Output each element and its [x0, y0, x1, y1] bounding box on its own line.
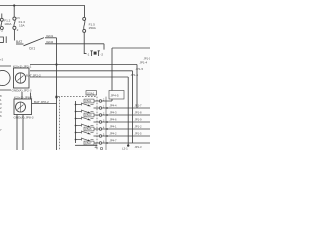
svg-text:Cn1: Cn1: [29, 47, 35, 51]
wire IGN1 terminal: [45, 37, 57, 39]
svg-text:GND(A) JP8-3: GND(A) JP8-3: [14, 116, 34, 120]
svg-text:JP1-7: JP1-7: [135, 103, 143, 107]
svg-text:250A: 250A: [89, 26, 97, 30]
svg-text:-2: -2: [100, 52, 103, 56]
fuse F1.5: [83, 17, 86, 51]
fuse F1.2 (left edge, partially cut): [0, 14, 3, 30]
node junction on JP2-1 line: [55, 63, 57, 65]
wire row y115: [94, 114, 151, 116]
svg-text:Q5A3: Q5A3: [85, 113, 92, 117]
wire IGN1 vertical drop: [56, 38, 58, 150]
wire row y108: [94, 107, 151, 109]
svg-text:K2(+2) JP8-1: K2(+2) JP8-1: [14, 95, 33, 99]
svg-text:JP4-2: JP4-2: [110, 131, 118, 135]
svg-text:JP4-6: JP4-6: [110, 117, 118, 121]
relay K2 outer (cut at edge): [0, 66, 11, 90]
relay K8 link: [22, 92, 31, 99]
sidebar vertical text: [0, 94, 2, 132]
wire bus drop to fuse F1.3: [13, 6, 15, 18]
transistor array Q1-Q6: [75, 99, 150, 149]
svg-text:JP1-5: JP1-5: [136, 67, 144, 71]
svg-text:JP4-3: JP4-3: [110, 110, 118, 114]
svg-text:BAT: BAT: [16, 40, 22, 44]
transistor Q6: [75, 138, 94, 142]
texts: [0, 17, 119, 120]
svg-text:JP1-4: JP1-4: [140, 61, 148, 65]
switch SW1 ignition blade: [16, 43, 24, 45]
diode module D1 -1 [s] -2: [84, 51, 86, 54]
svg-text:2: 2: [17, 28, 19, 32]
svg-text:Q5A1: Q5A1: [85, 99, 92, 103]
transistor Q3: [75, 117, 94, 121]
wire JP1 feed top right: [112, 47, 150, 49]
module bottom rail: [75, 144, 97, 146]
svg-text:IGN2: IGN2: [46, 40, 54, 44]
transistor Q2: [75, 110, 94, 114]
svg-text:BAT JP2-2: BAT JP2-2: [26, 73, 41, 77]
svg-text:BAT JP8-2: BAT JP8-2: [34, 100, 49, 104]
svg-text:JP4-1: JP4-1: [110, 124, 118, 128]
wire JP2-1 line: [30, 64, 137, 66]
svg-text:JP4-4: JP4-4: [110, 103, 118, 107]
svg-text:JP4-7: JP4-7: [110, 138, 118, 142]
wire top bus: [0, 6, 85, 18]
relay K2 inner box: [14, 68, 30, 88]
svg-text:-2: -2: [0, 29, 3, 33]
no-connect stub left edge: [0, 36, 6, 43]
driver box Q5A7: [84, 141, 94, 145]
svg-text:IGN1: IGN1: [46, 34, 54, 38]
driver box Q5A3: [84, 113, 94, 117]
wire BAT JP8-2: [32, 103, 57, 105]
wire row y143: [94, 142, 151, 144]
svg-text:Q5A7: Q5A7: [85, 141, 92, 145]
svg-text:JP1-5: JP1-5: [135, 131, 143, 135]
label L2 terminal: [127, 144, 129, 146]
wire IGN2 terminal run: [45, 43, 104, 45]
wire row y136: [94, 135, 151, 137]
svg-text:JP1-9: JP1-9: [135, 117, 143, 121]
svg-text:Q5A1: Q5A1: [87, 91, 95, 95]
label box Q5A: [86, 91, 97, 95]
wire JP2-2 line: [30, 70, 133, 72]
transistor Q4: [75, 124, 94, 128]
node module tap: [55, 96, 57, 98]
base feed bus: [75, 101, 77, 143]
svg-text:JP4-5: JP4-5: [111, 94, 119, 98]
svg-text:JP1-8: JP1-8: [135, 110, 143, 114]
wire JP2-3 line: [30, 76, 128, 78]
svg-text:+2: +2: [0, 58, 4, 62]
transistor Q1: [75, 103, 94, 107]
wire JP1-5 drop: [132, 71, 134, 143]
wire JP1-4 drop: [136, 65, 138, 109]
svg-text:JP1-3: JP1-3: [135, 145, 143, 149]
relay K8 box: [14, 99, 32, 115]
wire row y129: [94, 128, 151, 130]
wire row y101: [94, 100, 112, 102]
svg-text:JP1-2: JP1-2: [135, 124, 143, 128]
driver box Q5A5: [84, 127, 94, 131]
svg-text:100A: 100A: [4, 22, 12, 26]
ground tick below rail: [95, 144, 98, 148]
wire K8 ground drops: [17, 115, 23, 151]
wire row y122: [94, 121, 151, 123]
node bus junction: [13, 4, 15, 6]
svg-text:15A: 15A: [19, 24, 25, 28]
svg-text:JP1-6: JP1-6: [131, 73, 139, 77]
svg-text:K2(+2) JP2-1: K2(+2) JP2-1: [13, 65, 32, 69]
wire JP1-6 long drop: [127, 77, 129, 145]
svg-text:-1: -1: [87, 52, 90, 56]
module dashed border: [58, 97, 97, 150]
driver box Q5A1: [84, 99, 94, 103]
fuse F1.3: [13, 17, 16, 40]
JP4-5 box: [109, 91, 124, 100]
svg-text:GND(A) JP2-3: GND(A) JP2-3: [12, 89, 32, 93]
svg-text:L2-1: L2-1: [122, 147, 128, 151]
connector body line: [105, 97, 107, 150]
svg-text:Q5A5: Q5A5: [85, 127, 92, 131]
transistor Q5: [75, 131, 94, 135]
